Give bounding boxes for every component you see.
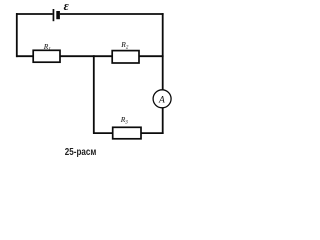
svg-text:ε: ε (64, 0, 70, 13)
wire: middle row, left corner to R1 (16, 55, 34, 57)
wire: top left segment (battery + to left corner) (16, 13, 53, 15)
wire: right vertical lower (ammeter to bottom corner) (162, 108, 164, 134)
wire: middle row, R1 to R2 (through node) (60, 55, 113, 57)
wire: bottom row, R3 to right vertical (141, 132, 164, 134)
wire: middle row, R2 to right vertical (139, 55, 164, 57)
wire: top right segment (battery - to right corner) (60, 13, 164, 15)
wire: left vertical (16, 13, 18, 57)
svg-text:25-расм: 25-расм (65, 146, 97, 158)
wire: right vertical upper (top corner down to ammeter) (162, 13, 164, 90)
wire: middle vertical branch down (93, 55, 95, 134)
svg-text:A: A (158, 96, 165, 106)
battery cell ε (53, 9, 60, 21)
battery short thick plate (56, 11, 60, 19)
wire: bottom row, node to R3 (93, 132, 113, 134)
resistor R2 (112, 51, 139, 63)
resistor R3 (113, 127, 141, 139)
resistor R1 (33, 50, 60, 62)
battery long plate (53, 9, 55, 21)
ammeter A (153, 90, 171, 108)
